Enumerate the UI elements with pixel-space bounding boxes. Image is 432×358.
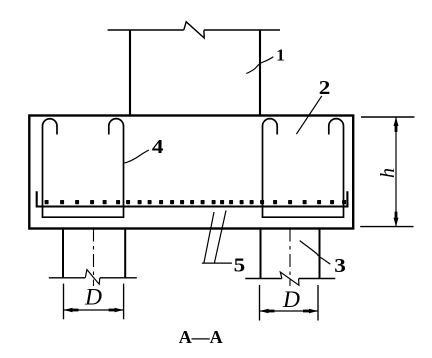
svg-text:2: 2 (319, 77, 331, 99)
svg-text:h: h (377, 168, 399, 178)
h dimension arrow down (394, 218, 399, 227)
left pile bottom break line (left segment) (49, 277, 86, 279)
column 1 right edge (259, 30, 261, 116)
right pile right edge (319, 229, 321, 279)
left pile centerline (dash-dot) (93, 229, 95, 287)
svg-text:D: D (84, 285, 102, 311)
right D dimension extension line (left) (259, 285, 261, 321)
h dimension line (395, 117, 397, 227)
right pile bottom break line (left segment) (245, 278, 282, 280)
right D dimension arrow right (309, 309, 318, 314)
right pile 3 left edge (260, 229, 262, 279)
right D dimension line (260, 310, 319, 312)
svg-text:4: 4 (152, 135, 164, 157)
left pile break zigzag (85, 270, 100, 285)
label 2 leader (296, 96, 321, 134)
pile cap outer rectangle 2 (29, 116, 353, 229)
left pile bottom break line (right segment) (100, 277, 137, 279)
left D dimension extension line (left) (63, 284, 65, 320)
left stirrup bar 4 with 180-degree hooks (43, 119, 124, 218)
right stirrup bar with 180-degree hooks (263, 119, 344, 218)
h dimension bottom extension line (360, 226, 413, 228)
column top break line (right segment) (204, 29, 280, 31)
left D dimension extension line (right) (123, 284, 125, 320)
label 4 leader (124, 150, 149, 163)
left D dimension arrow right (115, 308, 124, 313)
left pile right edge (124, 229, 126, 278)
right pile break zigzag (280, 272, 299, 285)
svg-text:3: 3 (334, 254, 346, 276)
left D dimension line (64, 309, 124, 311)
distribution bar dots row (45, 200, 347, 204)
svg-text:5: 5 (234, 254, 246, 276)
label 5 leader underline (202, 262, 232, 264)
right pile bottom break line (right segment) (299, 278, 336, 280)
h dimension arrow up (394, 117, 399, 126)
svg-text:D: D (282, 287, 300, 313)
right D dimension extension line (right) (317, 285, 319, 321)
label 5 leader diagonal right (215, 211, 227, 263)
label 1 leader (246, 57, 273, 74)
label 3 leader (300, 241, 331, 265)
column top break zigzag (184, 22, 204, 38)
column top break line (left segment) (108, 29, 184, 31)
svg-text:1: 1 (276, 46, 285, 65)
right pile centerline (dash-dot) (289, 229, 291, 287)
column 1 left edge (129, 30, 131, 116)
svg-text:A—A: A—A (179, 327, 223, 347)
left pile 3 left edge (62, 229, 64, 278)
right D dimension arrow left (260, 309, 269, 314)
left D dimension arrow left (64, 308, 73, 313)
bottom longitudinal bar 5 with upturned ends (37, 191, 348, 206)
h dimension top extension line (361, 116, 415, 118)
label 5 leader diagonal left (204, 212, 214, 263)
